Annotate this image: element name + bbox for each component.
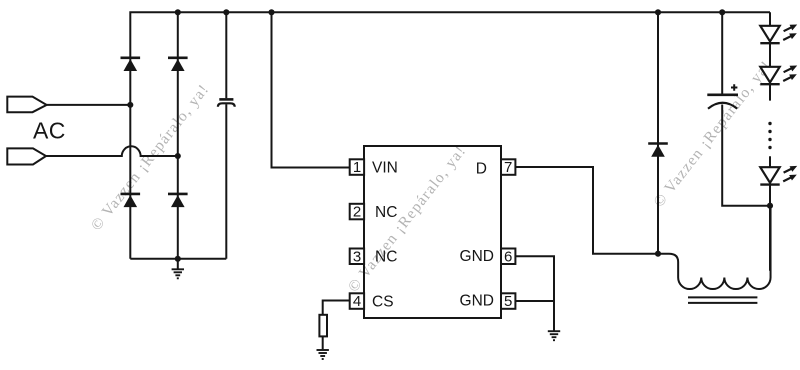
svg-text:NC: NC xyxy=(375,204,397,221)
svg-text:7: 7 xyxy=(504,159,512,176)
svg-text:NC: NC xyxy=(375,249,397,266)
svg-text:GND: GND xyxy=(460,248,494,265)
svg-text:AC: AC xyxy=(33,118,66,144)
svg-text:5: 5 xyxy=(504,293,512,310)
svg-text:D: D xyxy=(476,161,487,178)
svg-text:VIN: VIN xyxy=(372,159,398,176)
svg-text:2: 2 xyxy=(353,204,361,221)
svg-text:CS: CS xyxy=(372,293,394,310)
svg-text:1: 1 xyxy=(353,159,361,176)
svg-text:6: 6 xyxy=(504,248,512,265)
svg-text:GND: GND xyxy=(460,292,494,309)
svg-text:3: 3 xyxy=(353,248,361,265)
svg-text:4: 4 xyxy=(353,293,361,310)
